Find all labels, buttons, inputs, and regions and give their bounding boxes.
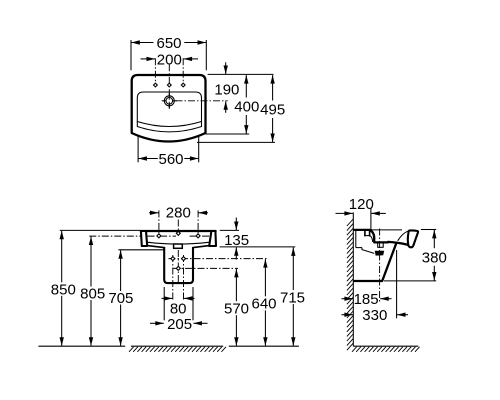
svg-text:380: 380	[422, 249, 447, 266]
svg-text:400: 400	[234, 99, 259, 116]
svg-text:120: 120	[349, 196, 374, 213]
svg-text:185: 185	[354, 291, 379, 308]
svg-text:205: 205	[167, 316, 192, 333]
svg-text:280: 280	[166, 205, 191, 222]
svg-text:135: 135	[224, 232, 249, 249]
svg-text:640: 640	[251, 296, 276, 313]
svg-text:850: 850	[51, 281, 76, 298]
svg-text:330: 330	[362, 307, 387, 324]
svg-text:705: 705	[108, 290, 133, 307]
svg-text:715: 715	[280, 289, 305, 306]
svg-text:495: 495	[260, 102, 285, 119]
svg-text:650: 650	[156, 35, 181, 52]
svg-text:570: 570	[224, 301, 249, 318]
svg-text:200: 200	[157, 52, 182, 69]
svg-text:190: 190	[214, 82, 239, 99]
svg-text:805: 805	[80, 286, 105, 303]
svg-text:560: 560	[158, 151, 183, 168]
